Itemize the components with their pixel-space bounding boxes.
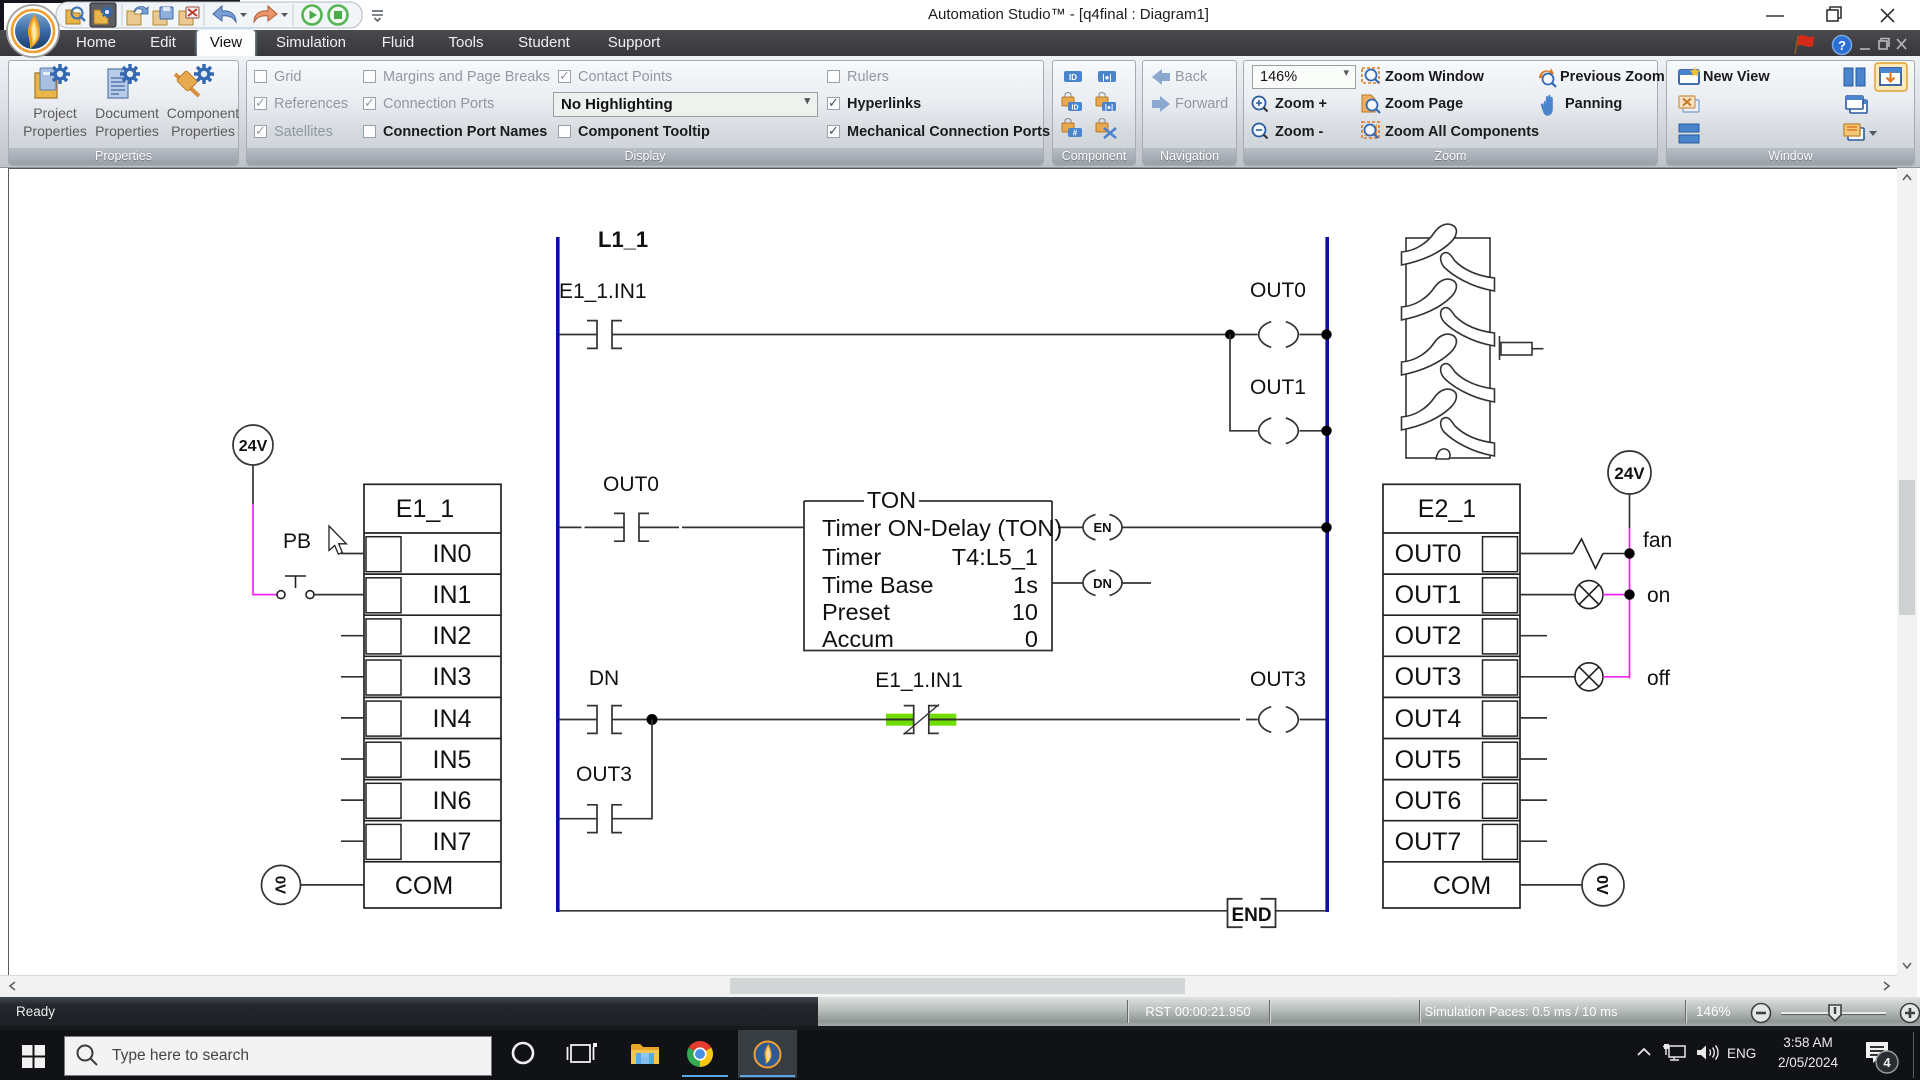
node rung1-branch	[1225, 330, 1235, 340]
tread band right 3	[1441, 364, 1495, 402]
tread band right 4	[1441, 418, 1495, 456]
qat icon: save	[153, 7, 173, 25]
close all icon	[1679, 96, 1699, 112]
svg-text:OUT2: OUT2	[1395, 622, 1462, 650]
svg-text:1s: 1s	[1013, 572, 1038, 598]
coil OUT1	[1259, 418, 1299, 444]
svg-text:OUT1: OUT1	[1395, 581, 1462, 609]
tile horizontal icon	[1679, 124, 1699, 143]
highlight green right leg	[929, 714, 957, 726]
cortana	[504, 1036, 542, 1074]
svg-text:IN5: IN5	[433, 746, 472, 774]
node EN rail	[1321, 522, 1331, 532]
svg-text:OUT5: OUT5	[1395, 746, 1462, 774]
svg-text:E1_1: E1_1	[396, 495, 454, 523]
wire rung3 to coil	[956, 719, 1257, 721]
contact E1_1.IN1 (NC)	[904, 706, 939, 734]
svg-text:IN1: IN1	[433, 581, 472, 609]
svg-text:OUT0: OUT0	[603, 473, 659, 496]
svg-text:Component: Component	[167, 105, 239, 121]
svg-text:DN: DN	[1093, 576, 1112, 591]
node OUT1 rail	[1321, 426, 1331, 436]
svg-text:IN7: IN7	[433, 828, 472, 856]
svg-text:4: 4	[1883, 1055, 1891, 1070]
svg-text:EN: EN	[1093, 520, 1111, 535]
tread stub bottom	[1436, 449, 1450, 459]
zoom - icon	[1253, 124, 1268, 139]
wire rung1 left	[559, 334, 597, 336]
lamp on	[1575, 581, 1603, 609]
qat icon: play	[303, 6, 322, 25]
contact DN (NO)	[587, 706, 622, 734]
document properties icon	[108, 64, 140, 98]
group: Window	[1666, 60, 1915, 166]
svg-text:IN4: IN4	[433, 705, 472, 733]
shaft	[1499, 336, 1501, 360]
window control buttons	[1750, 0, 1920, 30]
tread band right 1	[1441, 253, 1495, 291]
svg-text:E1_1.IN1: E1_1.IN1	[559, 280, 647, 303]
wire branch OUT1	[1230, 335, 1258, 431]
qat icon: undo	[213, 6, 236, 22]
coil OUT0	[1259, 322, 1299, 348]
E1_1 I/O card	[341, 484, 501, 908]
node rung3-branch	[647, 714, 658, 725]
wire coil OUT3 to rail	[1300, 719, 1326, 721]
qat more button	[372, 11, 383, 21]
wire lamp on to junction (pink)	[1603, 594, 1630, 596]
svg-text:Properties: Properties	[23, 123, 87, 139]
bottom rung wire	[559, 910, 1325, 912]
contact OUT0 (NO)	[614, 513, 649, 541]
svg-text:Preset: Preset	[822, 599, 890, 625]
left power rail L1_1	[556, 237, 560, 912]
component properties icon	[175, 64, 214, 96]
svg-text:E2_1: E2_1	[1418, 495, 1476, 523]
E1_1 row checkboxes	[366, 537, 401, 572]
branch OUT3 contact wire	[612, 720, 652, 819]
wire rung2 left	[559, 526, 624, 528]
qat icon: stop	[329, 6, 348, 25]
start button	[16, 1038, 52, 1074]
wire EN to rail	[1122, 526, 1326, 528]
svg-text:OUT4: OUT4	[1395, 705, 1462, 733]
node rung1 rail	[1321, 329, 1331, 339]
tread band left 4	[1402, 389, 1457, 430]
wire DN stub right	[1122, 582, 1152, 584]
previous zoom icon	[1539, 68, 1556, 87]
qat icon: redo	[254, 6, 277, 22]
svg-text:24V: 24V	[1614, 464, 1645, 483]
qat icon: open project	[66, 8, 85, 25]
highlight green left leg	[886, 714, 914, 726]
group: Component	[1052, 60, 1136, 166]
tread band left 3	[1402, 334, 1457, 375]
svg-text:#: #	[1073, 129, 1078, 138]
wire TON DN stub	[1052, 582, 1084, 584]
fan break symbol	[1573, 539, 1603, 569]
svg-text:OUT1: OUT1	[1250, 376, 1306, 399]
svg-text:E1_1.IN1: E1_1.IN1	[875, 669, 963, 692]
svg-text:TON: TON	[867, 487, 916, 513]
svg-text:DN: DN	[589, 667, 619, 690]
DN output	[1083, 570, 1122, 595]
tabs	[65, 30, 127, 56]
svg-text:OUT0: OUT0	[1250, 279, 1306, 302]
wire OUT0 to fan	[1520, 553, 1573, 555]
svg-text:T4:L5_1: T4:L5_1	[952, 544, 1038, 570]
node fan	[1624, 548, 1634, 558]
notification icon	[1860, 1036, 1906, 1078]
help	[1833, 36, 1852, 55]
QAT bar	[0, 0, 420, 62]
chrome	[680, 1038, 720, 1078]
svg-text:Timer: Timer	[822, 544, 881, 570]
svg-text:Project: Project	[33, 105, 77, 121]
group: Zoom	[1243, 60, 1658, 166]
svg-text:L1_1: L1_1	[598, 227, 648, 252]
zoom + icon	[1253, 97, 1268, 112]
svg-text:Timer ON-Delay (TON): Timer ON-Delay (TON)	[822, 515, 1062, 541]
tread band left 2	[1402, 279, 1457, 320]
wire rung1 to coil	[612, 334, 1258, 336]
qat icon: revert	[127, 7, 148, 25]
tray	[1630, 1040, 1730, 1070]
E2_1 I/O card	[1383, 484, 1547, 908]
lamp off	[1575, 663, 1603, 691]
qat icon: close project	[179, 7, 199, 25]
svg-text:10: 10	[1012, 599, 1038, 625]
svg-text:Properties: Properties	[171, 123, 235, 139]
zoom page icon	[1362, 95, 1380, 113]
new view icon	[1679, 67, 1700, 84]
svg-text:OUT0: OUT0	[1395, 540, 1462, 568]
svg-text:IN0: IN0	[433, 540, 472, 568]
svg-text:|●|: |●|	[1105, 105, 1113, 112]
project properties icon	[35, 64, 70, 98]
mouse cursor	[329, 526, 346, 554]
ribbon right small controls	[1780, 32, 1920, 56]
svg-text:COM: COM	[395, 872, 453, 900]
wire TON to EN	[1058, 526, 1084, 528]
push button PB	[277, 576, 314, 599]
EN output	[1083, 515, 1122, 540]
svg-text:IN2: IN2	[433, 622, 472, 650]
svg-text:ID: ID	[1072, 105, 1079, 112]
svg-text:IN3: IN3	[433, 663, 472, 691]
arrange icon + caret	[1844, 124, 1877, 140]
0V source left	[262, 865, 301, 904]
right power rail	[1325, 237, 1329, 912]
contact E1_1.IN1 (NO)	[587, 321, 622, 349]
wire OUT1 to lamp on	[1520, 594, 1575, 596]
svg-text:OUT6: OUT6	[1395, 787, 1462, 815]
svg-text:PB: PB	[283, 530, 311, 553]
group: Display	[246, 60, 1044, 166]
coil OUT3	[1259, 707, 1299, 733]
cascade icon	[1846, 96, 1867, 113]
AS taskbar button	[738, 1030, 797, 1078]
svg-text:|●|: |●|	[1102, 73, 1111, 82]
roller / fan image	[1402, 224, 1544, 459]
split vertical icon	[1844, 68, 1865, 86]
file explorer	[628, 1038, 662, 1072]
qat icon: project properties (selected)	[90, 3, 116, 27]
svg-text:0V: 0V	[1593, 875, 1610, 895]
NC slash	[904, 705, 940, 735]
TON block	[804, 501, 1052, 651]
TON block text	[822, 487, 1062, 652]
group: Properties	[8, 60, 239, 166]
svg-text:Time Base: Time Base	[822, 572, 933, 598]
group: Navigation	[1142, 60, 1237, 166]
svg-text:COM: COM	[1433, 872, 1491, 900]
svg-text:END: END	[1231, 905, 1271, 926]
E1_1 input pin stubs	[341, 554, 364, 842]
contact OUT3 (NO)	[587, 805, 622, 833]
svg-text:off: off	[1647, 667, 1670, 690]
svg-text:fan: fan	[1643, 529, 1672, 552]
svg-text:Properties: Properties	[95, 123, 159, 139]
tread band right 2	[1441, 308, 1495, 346]
zoom window icon	[1362, 68, 1379, 83]
status zoom slider	[1740, 997, 1920, 1027]
svg-text:?: ?	[1838, 38, 1846, 53]
svg-text:OUT3: OUT3	[1395, 663, 1462, 691]
svg-text:OUT7: OUT7	[1395, 828, 1462, 856]
svg-text:IN6: IN6	[433, 787, 472, 815]
panning icon	[1541, 95, 1553, 116]
wire PB to IN1	[314, 594, 364, 596]
svg-text:Document: Document	[95, 105, 159, 121]
END box	[1228, 899, 1275, 928]
wire 0V to COM	[301, 884, 365, 886]
svg-text:ID: ID	[1069, 73, 1077, 82]
24V source right	[1608, 451, 1651, 494]
wire rung2 to TON	[639, 526, 804, 528]
svg-text:0: 0	[1025, 626, 1038, 652]
wire COM to 0V right	[1520, 884, 1582, 886]
svg-text:24V: 24V	[239, 438, 268, 455]
wire 24V pink part	[253, 504, 277, 595]
AS logo	[6, 2, 62, 60]
wire 24V down (black part)	[252, 465, 254, 504]
wire coil OUT0 to rail	[1300, 334, 1326, 336]
wire rung3 left	[559, 719, 597, 721]
svg-text:OUT3: OUT3	[1250, 668, 1306, 691]
svg-text:OUT3: OUT3	[576, 763, 632, 786]
svg-text:0V: 0V	[272, 876, 289, 894]
zoom all components icon	[1362, 122, 1379, 138]
active window icon (selected)	[1875, 63, 1907, 91]
wire 24V right down black	[1629, 494, 1631, 528]
svg-text:Accum: Accum	[822, 626, 894, 652]
task view	[564, 1037, 600, 1073]
node on	[1624, 589, 1634, 599]
labels ladder	[559, 227, 1306, 926]
24V source left	[233, 425, 273, 465]
E2_1 row checkboxes	[1483, 537, 1518, 572]
wire rung3 mid	[612, 719, 904, 721]
wire branch to rail	[559, 818, 597, 820]
wire coil OUT1 to rail	[1300, 430, 1326, 432]
red flag	[1797, 35, 1814, 47]
wire 24V right pink vertical	[1629, 528, 1631, 679]
E2_1 output pin stubs	[1520, 636, 1547, 842]
svg-text:on: on	[1647, 584, 1670, 607]
0V source right	[1582, 864, 1624, 906]
wire OUT3 to lamp off	[1520, 676, 1575, 678]
tread band left 1	[1402, 224, 1457, 265]
wire fan to junction	[1603, 553, 1630, 555]
wire lamp off to pink corner	[1603, 676, 1630, 678]
